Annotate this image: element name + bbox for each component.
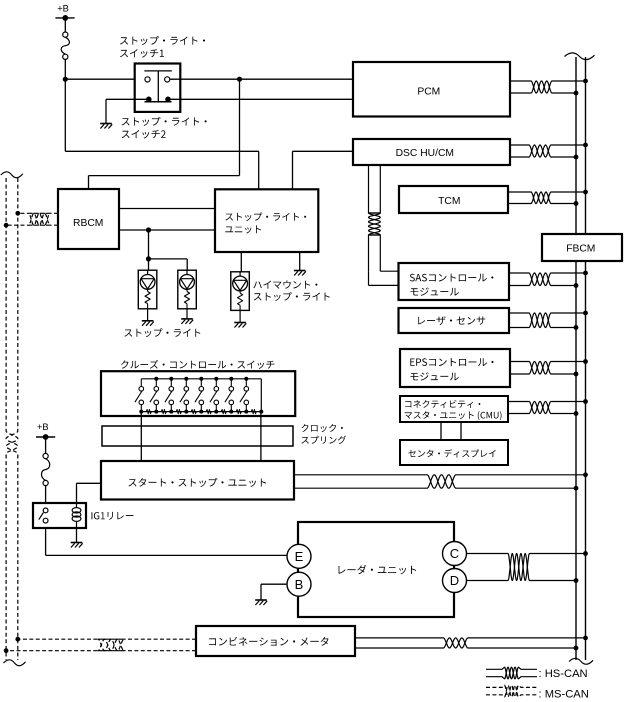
ground G4 (high mount stop light) [234,322,246,324]
ground G6 (IG1 relay) [71,542,83,544]
radar unit pin D [443,569,467,593]
high mount stop light label line2 [254,292,330,301]
junction combo-MS-L on MS-CAN line1 [4,648,9,653]
junction laser-H on bus line2 [583,311,588,316]
stop light switch 1 label line2 [120,49,164,58]
wire DSC HU/CM to stop light unit [293,150,354,152]
resistor cruise ladder R6 [221,410,226,414]
resistor cruise ladder R2 [161,410,166,414]
stop light switch 2 label line1 [122,117,207,126]
cruise switch button 5 [199,377,203,381]
module start stop unit box [101,461,294,500]
junction EPS-H on bus line2 [583,359,588,364]
twisted pair DSC down to SAS module [369,166,381,271]
junction startstop-L on bus line1 [574,486,579,491]
wire high mount stop light to ground [239,310,241,322]
junction PCM-L wire on bus line1 [574,91,579,96]
module SAS label line2 [411,288,459,296]
module combination meter label [209,637,329,646]
svg-text:FBCM: FBCM [566,243,595,254]
wire DSC-SAS pair bend left line into SAS [368,271,370,285]
junction CMU-H on bus line2 [583,399,588,404]
junction TCM-H on bus line2 [583,190,588,195]
cruise switch button 1 [140,379,142,387]
wire stop light unit to high mount stop light [240,252,242,272]
svg-text:TCM: TCM [438,196,460,207]
junction combo-H on bus line2 [583,636,588,641]
resistor cruise ladder R4 [191,410,196,414]
junction DSC-L on bus line1 [574,155,579,160]
radar unit pin E [287,544,311,568]
resistor cruise ladder R8 [251,410,256,414]
svg-text:+B: +B [57,4,69,14]
wire +B1 to fuse [64,18,66,32]
twisted pair TCM to HS-CAN bus [508,192,586,204]
module laser sensor label [418,316,485,325]
radar unit pin C [443,542,467,566]
switch SW2 contact right [165,97,171,103]
twisted pair combination meter to HS-CAN bus [355,638,586,648]
wire IG1 relay output to radar unit pin E [45,528,47,555]
legend MS-CAN symbol [486,685,537,697]
twisted pair (dashed) RBCM to MS-CAN bus [18,213,58,225]
cruise switch button 6 [214,377,218,381]
cruise switch bottom rail [141,411,261,413]
twisted pair laser sensor to HS-CAN bus [509,313,586,328]
twisted pair start stop unit to HS-CAN bus [294,475,586,488]
module center display box [400,440,508,465]
switch SW1 contact left [145,77,150,82]
net HS-CAN bus (vertical pair, right side) [575,57,577,660]
svg-text:B: B [295,577,304,592]
HS-CAN bus continuation break (bottom) [569,658,593,664]
power +B terminal 2 [36,436,55,438]
svg-text:D: D [450,573,459,588]
HS-CAN bus continuation break (top) [565,53,595,60]
module CMU label line2 [405,411,502,420]
node B junction on SW1-PCM wire [237,77,242,82]
junction laser-L on bus line1 [574,325,579,330]
wire start stop unit to IG1 relay coil [77,482,102,484]
junction DSC-H on bus line2 [583,143,588,148]
wire +B2 to fuse F2 [45,437,47,453]
MS-CAN bus continuation break (bottom) [4,660,26,666]
wire radar pin B to ground [261,583,287,585]
junction SAS-L on bus line1 [574,283,579,288]
junction radar-D on bus line1 [574,578,579,583]
module stop light unit label line1 [225,212,306,221]
cruise switch button 2 [154,377,158,381]
wire cruise switch left to start stop unit [140,412,142,461]
lamp high mount stop light [231,272,250,311]
resistor cruise ladder R7 [236,410,241,414]
wire node A down to stop light unit feed [64,79,66,151]
switch SW1 actuator post [157,71,159,102]
cruise switch button 7 [229,377,233,381]
relay IG1 box [33,503,86,528]
module laser sensor box [399,308,510,333]
svg-text:C: C [450,546,459,561]
clock spring label line1 [301,424,343,432]
module FBCM box [542,234,622,261]
module SAS box [399,263,510,300]
clock spring box [102,426,293,446]
wire SW1 right contact to PCM [170,78,353,80]
cruise switch right rail drop [260,379,262,412]
cruise switch button 3 [169,377,173,381]
switch SW1 contact right [165,77,170,82]
power +B terminal 1 [55,17,74,19]
module CMU label line1 [405,400,480,408]
svg-text:: MS-CAN: : MS-CAN [539,688,589,700]
module combination meter box [196,626,355,656]
resistor cruise ladder R1 [146,410,151,414]
junction combo-MS-H on MS-CAN line2 [15,637,20,642]
switch SW1/SW2 housing (stop light switches) [135,64,181,112]
wire RBCM to stop light unit (upper) [119,208,215,210]
module start stop unit label [129,478,267,487]
junction RBCM-L on MS-CAN line1 [4,223,9,228]
module stop light unit label line2 [225,225,261,233]
twisted pair (dashed) combination meter to MS-CAN bus [18,639,196,651]
module CMU box [400,396,508,422]
module stop light unit box [215,189,318,252]
wire fuse F2 to IG1 relay [45,486,47,508]
clock spring label line2 [301,436,346,444]
module radar unit box [298,522,454,617]
relay IG1 switch contact top [43,508,48,513]
junction SAS-H on bus line2 [583,271,588,276]
switch SW2 moving contact bar [145,101,172,103]
wire cruise switch right to start stop unit [260,412,262,461]
twisted pair DSC to HS-CAN bus [510,145,586,157]
cruise switch top rail [141,378,261,380]
switch cruise control housing [101,371,295,416]
twisted pair PCM to HS-CAN bus [510,81,586,93]
svg-text:DSC HU/CM: DSC HU/CM [396,148,454,159]
junction TCM-L on bus line1 [574,201,579,206]
junction RBCM-H on MS-CAN line2 [15,211,20,216]
net MS-CAN bus (vertical dashed pair, left side) with twist [6,178,18,660]
wire fuse F1 to stop light switch 1 row and node A [64,59,66,79]
wire RBCM to stop light unit (lower) [119,229,215,231]
legend HS-CAN symbol [486,667,537,679]
lamp stop light 1 [138,270,157,309]
relay IG1 switch contact bottom [43,518,48,523]
stop light switch 2 label line2 [122,130,166,139]
MS-CAN bus continuation break (top) [1,172,23,178]
svg-text:RBCM: RBCM [73,218,103,229]
junction CMU-L on bus line1 [574,411,579,416]
module RBCM box [58,189,119,249]
wire IG1 relay coil to ground [76,528,78,543]
radar unit pin B [287,572,311,596]
switch SW1 common bar [144,70,171,72]
module SAS label line1 [410,274,494,282]
wire SW2 right contact to PCM [168,98,353,100]
lamp stop light 2 [178,270,197,309]
ground G2 (stop light 1) [142,320,154,322]
node A junction (+B feed split) [63,77,68,82]
stop light switch 1 label line1 [120,36,205,45]
svg-text:+B: +B [37,422,49,432]
wire node A to stop light switch 1 upper contact [65,78,145,80]
twisted pair CMU to HS-CAN bus [508,402,586,414]
stop light label [124,328,200,337]
wire node D to stop light 2 [149,258,188,260]
node D junction (stop light branch) [146,256,151,261]
twisted pair radar C/D to HS-CAN bus [467,554,577,581]
ground G5 (stop light unit) [294,270,306,272]
svg-text:E: E [295,549,304,564]
wire node D to stop light 1 [148,259,150,270]
wire CMU to center display pair [440,422,442,440]
fuse F2 [43,453,48,458]
relay IG1 coil [76,503,78,508]
wire DSC-SAS pair bend right line into SAS [380,270,398,272]
wire node B down-left to RBCM [239,79,241,175]
fuse F1 [63,32,68,37]
twisted pair SAS to HS-CAN bus [509,273,586,286]
svg-text:: HS-CAN: : HS-CAN [539,668,588,680]
module EPS box [400,349,510,387]
wire SW2 left contact to ground [106,98,149,100]
wire stop light unit to ground [299,252,301,271]
junction PCM-H wire on bus line2 [583,79,588,84]
resistor cruise ladder R5 [206,410,211,414]
wire node C down to stop lights [148,230,150,259]
ground G3 (stop light 2) [181,318,193,320]
wire stop light 2 to ground [186,309,188,319]
high mount stop light label line1 [253,281,317,289]
junction combo-L on bus line1 [574,646,579,651]
ground G1 (stop light switch 2) [100,123,112,125]
module DSC HU/CM box [353,139,510,165]
node C junction on lower RBCM wire [146,227,151,232]
wire stop light 1 to ground [147,309,149,321]
resistor cruise ladder R3 [176,410,181,414]
module EPS label line2 [411,372,459,380]
ground G7 (radar unit) [255,599,267,601]
svg-text:PCM: PCM [417,87,440,98]
junction startstop-H on bus line2 [583,472,588,477]
module EPS label line1 [410,358,493,366]
junction EPS-L on bus line1 [574,372,579,377]
module TCM box [399,186,508,213]
cruise control switch label [121,360,274,369]
junction radar-C on bus line2 [583,551,588,556]
module PCM box [353,62,510,117]
switch SW2 contact left [146,97,152,103]
relay IG1 switch blade [39,513,44,520]
module radar unit label [339,565,417,574]
module center display label [408,449,495,457]
cruise switch button 4 [184,377,188,381]
twisted pair EPS to HS-CAN bus [510,362,586,375]
relay IG1 label [92,512,134,520]
cruise switch button 8 [244,377,248,381]
